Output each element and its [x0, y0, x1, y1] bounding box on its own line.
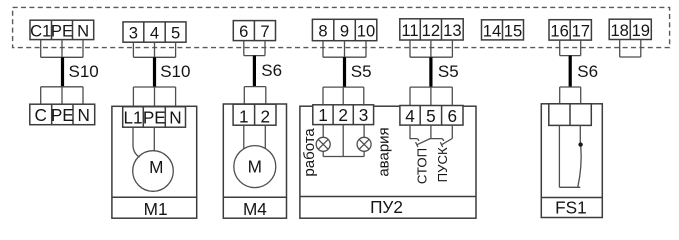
svg-text:S6: S6 [577, 62, 598, 81]
cable S10 (left) [61, 57, 64, 87]
cable S6 (float switch) [569, 56, 572, 87]
wire lamp bus [323, 156, 364, 158]
svg-text:14: 14 [483, 21, 501, 40]
wire 19 stub [640, 40, 642, 58]
wire FS1 right internal [579, 125, 581, 144]
svg-text:2: 2 [338, 105, 348, 125]
terminal block X1 16/17 [549, 20, 591, 41]
wire lamp common drop [342, 87, 344, 105]
svg-text:2: 2 [261, 106, 271, 126]
lamp HL2 (avariya) [357, 137, 371, 151]
wire upper bundle bar S6b [560, 55, 581, 57]
svg-text:C: C [34, 105, 46, 125]
cable S6 (motor M4) [253, 56, 256, 87]
svg-text:N: N [77, 21, 89, 40]
wire PE to motor [153, 127, 155, 151]
svg-text:3: 3 [359, 105, 369, 125]
button PUSK blade [442, 139, 453, 145]
wire 12 stub [430, 40, 432, 57]
junction dot FS1 [578, 142, 582, 146]
wire terminal6 [451, 125, 453, 139]
wire lamp1 drop [322, 87, 324, 105]
enclosure X1 dashed border [13, 7, 670, 47]
wire C drop [40, 87, 42, 104]
terminal block M4 1/2 [233, 104, 276, 126]
wire 5 drop [430, 87, 432, 105]
svg-text:1: 1 [318, 105, 328, 125]
wire PE drop M1 [154, 87, 156, 107]
terminal block PU2 4/5/6 [400, 106, 463, 126]
svg-text:15: 15 [504, 21, 522, 40]
wire terminal5 [431, 125, 444, 141]
wire lower bundle bar S5b [410, 86, 452, 88]
wire terminal1 to lamp1 [322, 125, 324, 138]
svg-text:5: 5 [426, 106, 436, 126]
wire lamp2 drop [363, 87, 365, 105]
svg-text:17: 17 [572, 22, 590, 41]
motor M1 circle [133, 151, 174, 192]
terminal block PU2 1/2/3 [313, 105, 374, 125]
wire lower bundle bar [41, 86, 83, 88]
svg-text:7: 7 [260, 22, 269, 41]
svg-text:4: 4 [150, 23, 159, 42]
wire bundle bar 18/19 [620, 56, 641, 58]
connector block C/PE/N [30, 104, 95, 125]
M4 label band [223, 196, 286, 198]
svg-text:6: 6 [239, 22, 248, 41]
svg-text:S5: S5 [438, 62, 459, 81]
wire N stub [82, 40, 84, 58]
terminal block L1/PE/N [123, 107, 186, 128]
wire upper bundle bar S5a [323, 56, 366, 58]
wire M4 terminal 1 to motor [243, 125, 245, 149]
svg-text:PE: PE [51, 21, 73, 40]
wire terminal2 common [342, 125, 344, 157]
wire 1 drop [243, 87, 245, 105]
wire FS1 bottom internal [559, 186, 580, 188]
svg-text:M: M [149, 157, 163, 177]
svg-text:PE: PE [143, 108, 166, 128]
PU2 label band [300, 196, 476, 198]
wire L1 to motor [133, 127, 140, 157]
button STOP blade [417, 138, 431, 144]
wire M4 terminal 2 to motor [264, 125, 266, 149]
wire FS1 left internal [558, 125, 560, 187]
cable S5 (buttons) [429, 57, 432, 87]
wire 2 drop [265, 87, 267, 105]
float switch blade [578, 147, 581, 188]
wire 7 stub [264, 41, 266, 56]
wire 3 stub [132, 42, 134, 57]
svg-text:9: 9 [340, 21, 349, 40]
wire upper bundle bar S5b [410, 56, 452, 58]
wire PE stub [61, 40, 63, 58]
cable S10 (motor M1) [153, 57, 156, 87]
svg-text:11: 11 [401, 21, 418, 40]
svg-text:PE: PE [51, 105, 74, 125]
lamp HL1 (rabota) [316, 137, 330, 151]
wire 11 stub [409, 40, 411, 57]
svg-text:S6: S6 [261, 61, 282, 80]
terminal block X1 14/15 [482, 20, 524, 41]
FS1 label band [541, 197, 602, 199]
svg-text:S10: S10 [160, 62, 190, 81]
wire 13 stub [451, 40, 453, 57]
motor M4 circle [234, 146, 276, 188]
svg-text:M4: M4 [243, 199, 267, 219]
svg-text:L1: L1 [123, 108, 142, 128]
svg-text:16: 16 [550, 22, 568, 41]
svg-text:1: 1 [239, 106, 249, 126]
terminal block X1 11/12/13 [400, 19, 463, 40]
wire PE drop [61, 87, 63, 104]
svg-text:авария: авария [376, 127, 393, 176]
svg-text:N: N [169, 108, 181, 128]
wire lamp1 bottom [322, 151, 324, 156]
svg-text:ПУСК: ПУСК [435, 147, 450, 182]
wire 8 stub [322, 41, 324, 58]
wire 4 drop [409, 87, 411, 105]
wire lower bundle bar M1 [133, 86, 175, 88]
wire 6 drop [451, 87, 453, 105]
svg-text:13: 13 [443, 21, 461, 40]
svg-text:4: 4 [405, 106, 415, 126]
terminal block X1 8/9/10 [312, 19, 376, 40]
svg-text:C1: C1 [30, 21, 51, 40]
motor M4 box [223, 104, 286, 218]
svg-text:6: 6 [448, 106, 458, 126]
wire L1 drop [132, 87, 134, 107]
terminal block X1 C1/PE/N [30, 20, 94, 40]
wire FS1 right drop [580, 87, 582, 104]
wire 10 stub [365, 41, 367, 58]
svg-text:СТОП: СТОП [414, 148, 429, 184]
wire lower bundle bar S6b [560, 86, 581, 88]
wire 18 stub [619, 40, 621, 58]
svg-text:S10: S10 [69, 62, 99, 81]
svg-text:19: 19 [632, 21, 650, 40]
svg-text:M1: M1 [144, 199, 168, 219]
svg-text:3: 3 [129, 23, 138, 42]
M1 label band [112, 196, 197, 198]
button PUSK blade tick [440, 142, 442, 147]
terminal block FS1 [549, 104, 592, 126]
svg-text:12: 12 [422, 21, 440, 40]
svg-text:5: 5 [171, 23, 180, 42]
button STOP blade tick [416, 142, 418, 147]
svg-text:S5: S5 [351, 62, 372, 81]
wire lamp2 bottom [363, 151, 365, 156]
wire 5 stub [175, 42, 177, 57]
button STOP wiring [410, 125, 419, 141]
svg-text:M: M [248, 157, 262, 177]
terminal block X1 3/4/5 [123, 22, 186, 43]
svg-text:8: 8 [318, 21, 327, 40]
svg-text:ПУ2: ПУ2 [370, 197, 403, 217]
wire upper bundle bar M4 [244, 55, 265, 57]
wire 16 stub [559, 40, 561, 56]
terminal block X1 6/7 [233, 21, 275, 41]
svg-text:10: 10 [357, 21, 375, 40]
wire lower bundle bar S5a [323, 86, 364, 88]
svg-text:18: 18 [610, 21, 628, 40]
svg-text:работа: работа [301, 128, 318, 177]
wire 17 stub [580, 40, 582, 56]
svg-text:FS1: FS1 [555, 198, 587, 218]
wire lower bundle bar M4 [244, 86, 265, 88]
wire N drop M1 [175, 87, 177, 107]
cable S5 (lamps) [343, 57, 346, 87]
float switch FS1 box [541, 104, 602, 218]
wire terminal3 to lamp2 [363, 125, 365, 138]
wire 4 stub [154, 42, 156, 57]
svg-text:N: N [77, 105, 89, 125]
wire N drop [82, 87, 84, 104]
terminal block X1 18/19 [609, 19, 651, 40]
wire C1 stub [40, 40, 42, 58]
wire 6 stub [243, 41, 245, 56]
wire upper bundle bar M1 [133, 56, 175, 58]
control panel PU2 box [300, 106, 476, 218]
wire upper bundle bar [41, 56, 83, 58]
motor M1 box [112, 106, 197, 218]
wire FS1 left drop [559, 87, 561, 104]
wire 9 stub [344, 41, 346, 58]
